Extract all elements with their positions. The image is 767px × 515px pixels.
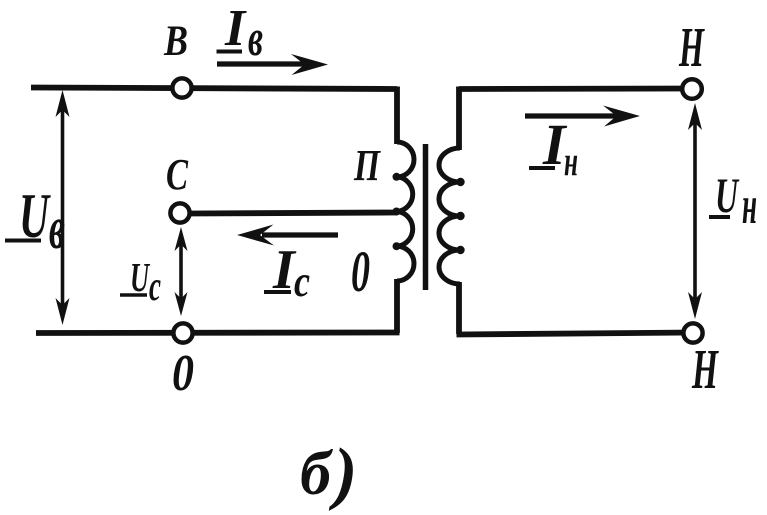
current arrow I_H	[525, 106, 640, 127]
wire top-left horizontal (B line)	[31, 88, 397, 90]
wire top-right horizontal (to H)	[459, 86, 692, 92]
svg-text:С: С	[166, 150, 188, 199]
svg-text:П: П	[353, 141, 381, 190]
label U_B with underline and subscript	[5, 180, 65, 261]
transformer core	[423, 144, 429, 290]
svg-text:U: U	[715, 167, 740, 223]
svg-text:Н: Н	[691, 339, 718, 401]
wire bottom-right horizontal (to H)	[457, 333, 694, 335]
svg-text:В: В	[163, 18, 188, 65]
node O (terminal circle)	[173, 323, 192, 342]
winding П (primary, top half: two bumps)	[397, 142, 414, 212]
winding cusp blobs	[393, 173, 465, 254]
wire left vertical from primary winding bottom	[394, 279, 400, 333]
svg-text:с: с	[294, 257, 310, 306]
svg-text:н: н	[742, 175, 757, 235]
wire left vertical from B line to primary winding top	[394, 87, 400, 145]
current arrow I_B	[217, 54, 328, 75]
wire right vertical from top wire to secondary winding	[456, 87, 462, 151]
label U_C with underline and subscript	[120, 254, 161, 310]
svg-text:0: 0	[351, 239, 370, 304]
wire C tap horizontal	[190, 213, 397, 214]
label I_B with underline and subscript	[217, 0, 264, 67]
winding О (primary, bottom half: two bumps)	[397, 212, 414, 282]
svg-text:0: 0	[172, 345, 194, 402]
svg-text:б: б	[300, 440, 333, 508]
voltage arrow U_C (double-headed vertical)	[175, 227, 188, 316]
svg-text:U: U	[130, 254, 151, 300]
voltage arrow U_B (double-headed vertical)	[56, 90, 70, 325]
svg-text:в: в	[248, 10, 263, 67]
node H bottom (terminal circle)	[683, 323, 702, 342]
current arrow I_C (points left)	[237, 225, 338, 246]
label I_H with underline and subscript	[529, 112, 578, 185]
label U_H with underline and subscript	[709, 167, 757, 235]
label I_C with underline and subscript	[264, 239, 310, 306]
node C (terminal circle)	[170, 203, 189, 222]
svg-text:I: I	[224, 0, 247, 57]
wire right vertical from secondary winding to bottom wire	[456, 282, 462, 334]
svg-text:в: в	[49, 195, 65, 261]
voltage arrow U_H (double-headed vertical)	[688, 103, 702, 319]
secondary winding (four bumps facing left)	[439, 148, 460, 284]
svg-text:Н: Н	[678, 17, 704, 79]
wire bottom-left horizontal (O line)	[36, 330, 400, 336]
node B (terminal circle)	[172, 78, 191, 97]
svg-text:с: с	[149, 264, 161, 310]
svg-text:н: н	[564, 139, 578, 185]
node H top (terminal circle)	[682, 79, 702, 99]
